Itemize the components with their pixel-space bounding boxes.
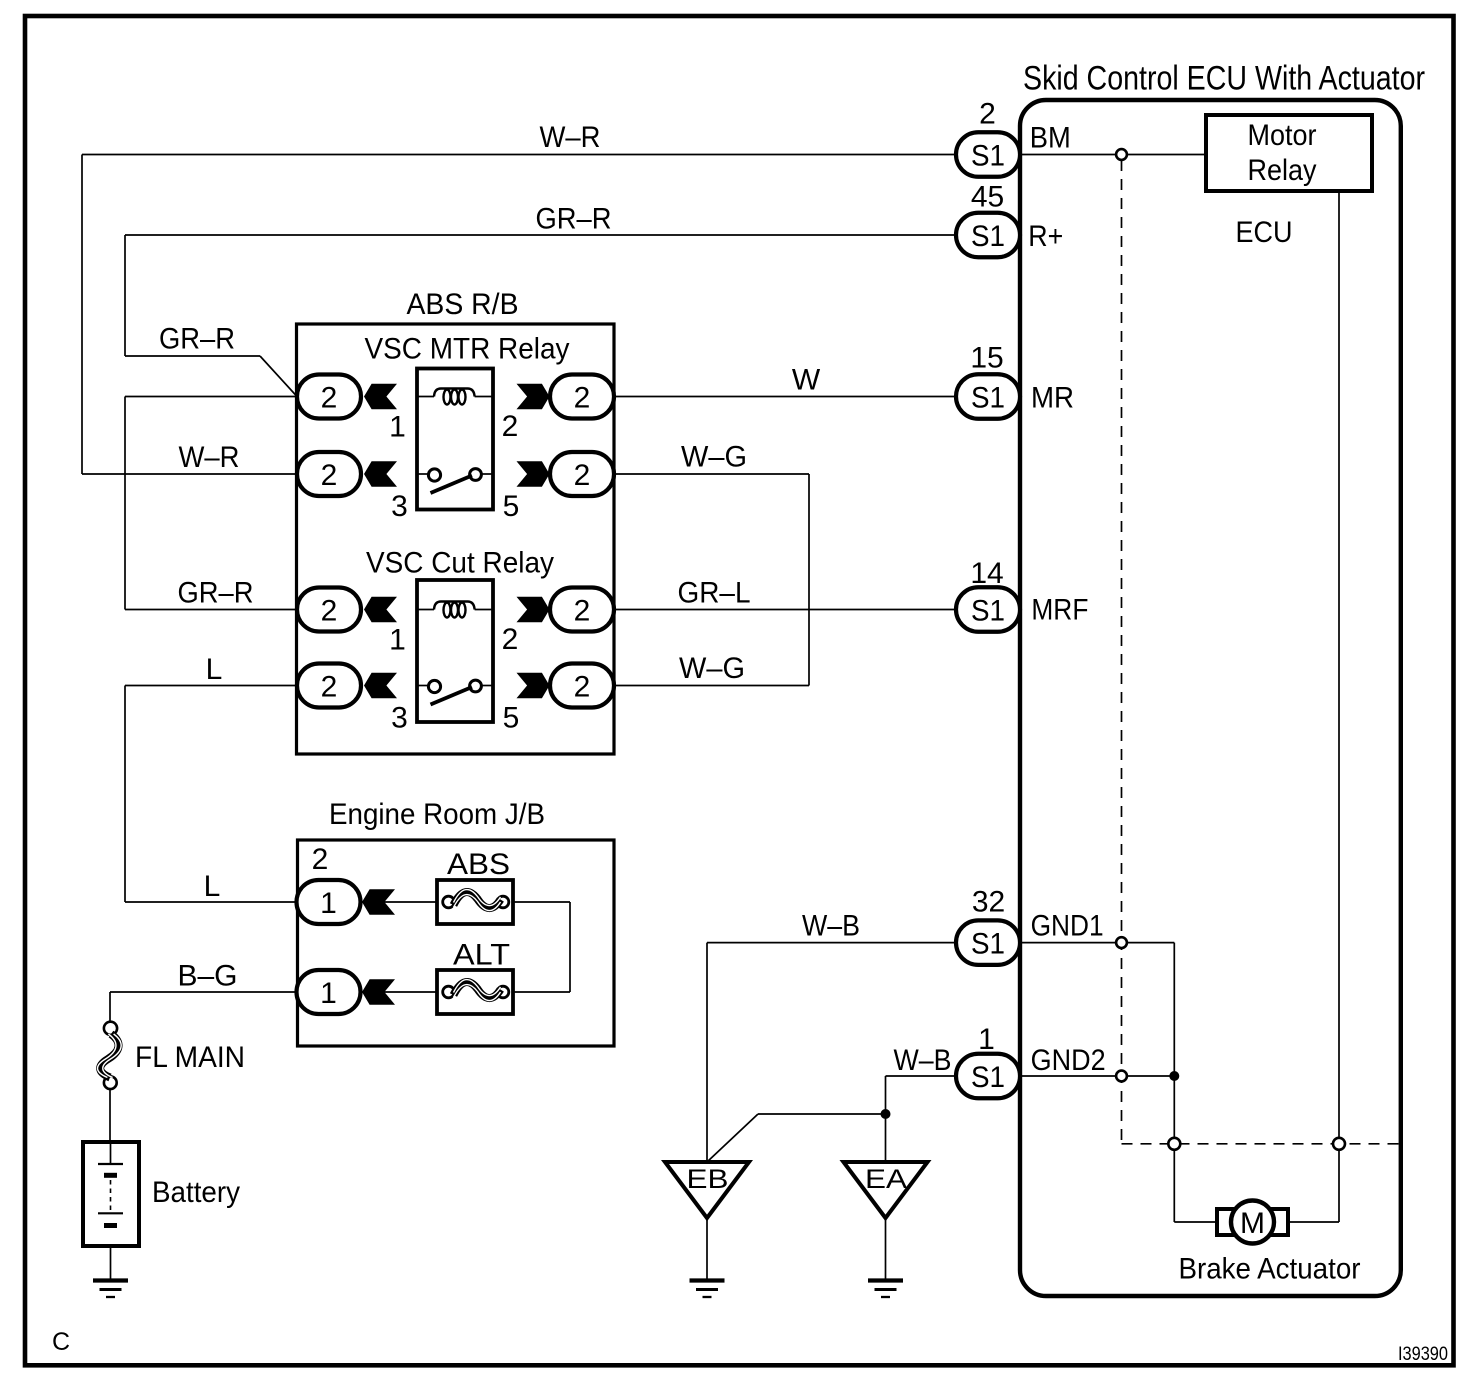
svg-text:5: 5 [503, 702, 520, 735]
svg-text:1: 1 [320, 887, 337, 920]
svg-text:Motor: Motor [1248, 119, 1317, 152]
svg-text:MRF: MRF [1031, 594, 1088, 627]
svg-text:32: 32 [972, 886, 1005, 919]
svg-text:ABS R/B: ABS R/B [407, 288, 519, 321]
svg-text:2: 2 [321, 382, 338, 415]
svg-text:Battery: Battery [152, 1176, 240, 1209]
svg-text:2: 2 [574, 382, 591, 415]
svg-text:ALT: ALT [453, 939, 510, 972]
svg-text:C: C [52, 1328, 70, 1356]
svg-text:2: 2 [312, 843, 329, 876]
svg-text:1: 1 [320, 977, 337, 1010]
svg-text:S1: S1 [971, 928, 1005, 961]
svg-text:3: 3 [391, 490, 408, 523]
svg-text:2: 2 [574, 671, 591, 704]
svg-text:GR–L: GR–L [678, 577, 751, 610]
svg-text:3: 3 [391, 702, 408, 735]
svg-text:B–G: B–G [177, 960, 237, 993]
svg-text:5: 5 [503, 490, 520, 523]
svg-text:2: 2 [502, 623, 519, 656]
svg-text:VSC Cut Relay: VSC Cut Relay [366, 547, 554, 580]
svg-text:1: 1 [389, 624, 406, 657]
svg-text:BM: BM [1030, 122, 1071, 155]
svg-text:S1: S1 [971, 1061, 1005, 1094]
svg-text:Engine Room J/B: Engine Room J/B [329, 798, 545, 831]
svg-text:ABS: ABS [447, 848, 510, 881]
svg-text:1: 1 [389, 411, 406, 444]
svg-text:W: W [792, 364, 821, 397]
svg-text:GR–R: GR–R [159, 323, 235, 356]
svg-text:2: 2 [321, 459, 338, 492]
svg-text:14: 14 [970, 557, 1003, 590]
svg-text:15: 15 [970, 342, 1003, 375]
svg-text:EA: EA [865, 1164, 907, 1194]
svg-text:W–G: W–G [681, 441, 747, 474]
svg-text:GND1: GND1 [1031, 910, 1104, 943]
svg-text:2: 2 [502, 410, 519, 443]
svg-text:GR–R: GR–R [178, 577, 254, 610]
svg-text:S1: S1 [971, 382, 1005, 415]
svg-text:R+: R+ [1028, 220, 1063, 253]
svg-text:GR–R: GR–R [536, 203, 612, 236]
svg-text:I39390: I39390 [1398, 1344, 1448, 1365]
svg-text:S1: S1 [971, 595, 1005, 628]
svg-text:GND2: GND2 [1031, 1044, 1106, 1077]
svg-text:2: 2 [979, 98, 996, 131]
svg-text:L: L [206, 653, 223, 686]
svg-text:Skid Control ECU With Actuator: Skid Control ECU With Actuator [1023, 60, 1425, 98]
svg-text:ECU: ECU [1236, 216, 1293, 249]
svg-text:2: 2 [321, 671, 338, 704]
svg-text:W–B: W–B [802, 910, 860, 943]
svg-text:W–G: W–G [679, 652, 745, 685]
svg-text:45: 45 [971, 181, 1004, 214]
svg-text:2: 2 [574, 595, 591, 628]
svg-text:W–R: W–R [540, 121, 601, 154]
svg-text:M: M [1240, 1207, 1265, 1240]
svg-text:L: L [204, 870, 221, 903]
svg-text:1: 1 [978, 1023, 995, 1056]
svg-text:W–R: W–R [179, 441, 240, 474]
svg-text:EB: EB [687, 1164, 729, 1194]
svg-text:2: 2 [321, 595, 338, 628]
svg-text:FL MAIN: FL MAIN [135, 1041, 245, 1074]
svg-text:S1: S1 [971, 140, 1005, 173]
svg-text:VSC MTR Relay: VSC MTR Relay [365, 333, 570, 366]
svg-text:Brake Actuator: Brake Actuator [1179, 1253, 1361, 1286]
svg-text:MR: MR [1031, 382, 1074, 415]
svg-text:2: 2 [574, 459, 591, 492]
svg-text:S1: S1 [971, 220, 1005, 253]
svg-text:Relay: Relay [1248, 154, 1317, 187]
svg-text:W–B: W–B [894, 1044, 952, 1077]
